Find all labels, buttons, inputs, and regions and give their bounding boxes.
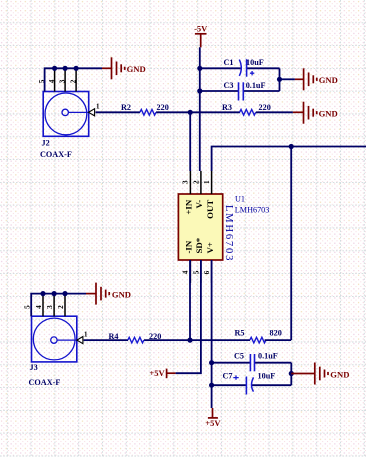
svg-text:R4: R4 (109, 332, 119, 341)
svg-text:6: 6 (203, 270, 211, 274)
svg-text:4: 4 (48, 79, 56, 83)
svg-text:0.1uF: 0.1uF (246, 81, 266, 90)
svg-text:4: 4 (182, 270, 190, 274)
ground GND (C1/C3) (295, 68, 338, 90)
svg-text:220: 220 (157, 103, 169, 112)
svg-text:5: 5 (193, 270, 201, 274)
junction dots J2 pins 4,3,2 (52, 66, 57, 71)
ground GND (J3) (86, 283, 131, 305)
svg-text:1: 1 (203, 180, 211, 184)
svg-text:OUT: OUT (205, 200, 215, 219)
connector J3 (24, 294, 88, 387)
svg-text:GND: GND (319, 109, 338, 119)
wire V+ rail down (211, 260, 213, 408)
svg-text:+IN: +IN (184, 199, 194, 214)
svg-text:GND: GND (319, 75, 338, 85)
svg-text:GND: GND (112, 290, 131, 300)
wire feedback vertical (290, 147, 292, 341)
svg-text:V+: V+ (205, 242, 215, 253)
svg-text:COAX-F: COAX-F (40, 150, 72, 159)
junction node +IN (188, 110, 193, 115)
ground GND (R3) (293, 102, 338, 124)
junction dots V+ rail at C5, C7 (209, 360, 214, 365)
junction node -IN (187, 338, 192, 343)
resistor R3 220 (190, 103, 293, 115)
wire -5V rail to op-amp V- (199, 47, 201, 171)
wire OUT up and right to edge (212, 147, 366, 172)
junction dot feedback tap (289, 144, 294, 149)
svg-text:3: 3 (182, 180, 190, 184)
svg-text:220: 220 (259, 103, 271, 112)
wire C5/C7 right vertical (290, 363, 292, 386)
svg-text:U1: U1 (235, 195, 245, 204)
svg-text:J3: J3 (30, 363, 38, 372)
svg-text:SD*: SD* (194, 237, 204, 253)
svg-text:0.1uF: 0.1uF (258, 352, 278, 361)
svg-text:-5V: -5V (194, 24, 208, 34)
resistor R5 820 (190, 328, 291, 343)
junction dots J3 pins 4,3,2 (40, 291, 45, 296)
svg-text:3: 3 (46, 305, 54, 309)
svg-text:C7: C7 (223, 371, 233, 380)
svg-text:2: 2 (57, 305, 65, 309)
svg-text:220: 220 (149, 332, 161, 341)
svg-text:R5: R5 (235, 328, 245, 337)
power +5V (bottom, V+) (205, 408, 221, 428)
svg-text:LMH6703: LMH6703 (223, 205, 234, 262)
power +5V (left, to SD*) (149, 368, 175, 378)
junction dot C1/C3 gnd tap (277, 77, 282, 82)
junction dot C5/C7 gnd tap (289, 371, 294, 376)
wire J3 shield bus to GND (31, 294, 86, 317)
svg-text:2: 2 (69, 79, 77, 83)
op-amp U1 LMH6703 (178, 171, 269, 283)
capacitor C5 0.1uF (212, 352, 292, 372)
svg-text:LMH6703: LMH6703 (235, 205, 270, 214)
svg-text:-IN: -IN (184, 240, 194, 253)
capacitor C7 10uF (212, 371, 292, 394)
wire SD* to +5V (176, 260, 201, 373)
capacitor C1 10uF (200, 58, 280, 77)
junction dots -5V rail at C1, C3 (197, 66, 202, 71)
svg-text:GND: GND (127, 64, 146, 74)
svg-text:C1: C1 (224, 58, 234, 67)
svg-text:4: 4 (35, 305, 43, 309)
svg-text:820: 820 (270, 328, 282, 337)
capacitor C3 0.1uF (200, 81, 280, 100)
svg-text:1: 1 (84, 331, 88, 339)
svg-text:2: 2 (193, 180, 201, 184)
wire C1/C3 right vertical (279, 68, 281, 91)
resistor R2 220 (121, 103, 169, 115)
connector J2 (38, 68, 100, 159)
svg-text:+5V: +5V (149, 368, 165, 378)
svg-text:10uF: 10uF (246, 58, 264, 67)
resistor R4 220 (109, 332, 162, 343)
svg-text:GND: GND (330, 369, 349, 379)
ground GND (J2) (102, 57, 146, 79)
wire -IN up to pin 4 (189, 260, 191, 340)
svg-text:10uF: 10uF (258, 371, 276, 380)
svg-text:1: 1 (96, 103, 100, 111)
wire J2 pin1 to junction (96, 111, 141, 113)
svg-text:C3: C3 (224, 81, 234, 90)
svg-text:R2: R2 (121, 103, 131, 112)
svg-text:R3: R3 (222, 103, 232, 112)
wire +IN down to pin 3 (189, 112, 191, 171)
svg-text:J2: J2 (42, 139, 50, 148)
wire J3 pin1 to junction (84, 339, 128, 341)
svg-text:+5V: +5V (205, 418, 221, 428)
power -5V (194, 24, 208, 48)
wire to GND (280, 78, 295, 80)
svg-text:V-: V- (194, 200, 204, 209)
svg-text:C5: C5 (234, 352, 244, 361)
ground GND (C5/C7) (291, 363, 349, 385)
wire J2 shield bus to GND (45, 68, 102, 91)
svg-text:3: 3 (58, 79, 66, 83)
svg-text:COAX-F: COAX-F (29, 378, 61, 387)
